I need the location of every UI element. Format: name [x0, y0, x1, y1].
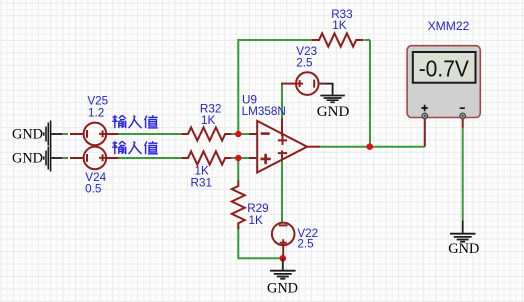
svg-text:2.5: 2.5	[297, 237, 314, 250]
svg-text:1K: 1K	[201, 114, 216, 127]
svg-text:1K: 1K	[249, 214, 264, 227]
svg-text:XMM22: XMM22	[428, 20, 470, 33]
svg-text:GND: GND	[12, 126, 43, 142]
svg-text:GND: GND	[267, 281, 298, 297]
svg-text:GND: GND	[317, 104, 350, 120]
svg-text:-0.7V: -0.7V	[419, 56, 469, 82]
svg-text:0.5: 0.5	[85, 183, 102, 196]
svg-text:GND: GND	[448, 241, 479, 257]
svg-text:LM358N: LM358N	[242, 105, 286, 118]
svg-text:GND: GND	[12, 151, 43, 167]
svg-text:1K: 1K	[332, 19, 347, 32]
svg-text:1.2: 1.2	[88, 106, 104, 119]
svg-text:R31: R31	[191, 176, 212, 189]
svg-text:2.5: 2.5	[296, 56, 313, 69]
